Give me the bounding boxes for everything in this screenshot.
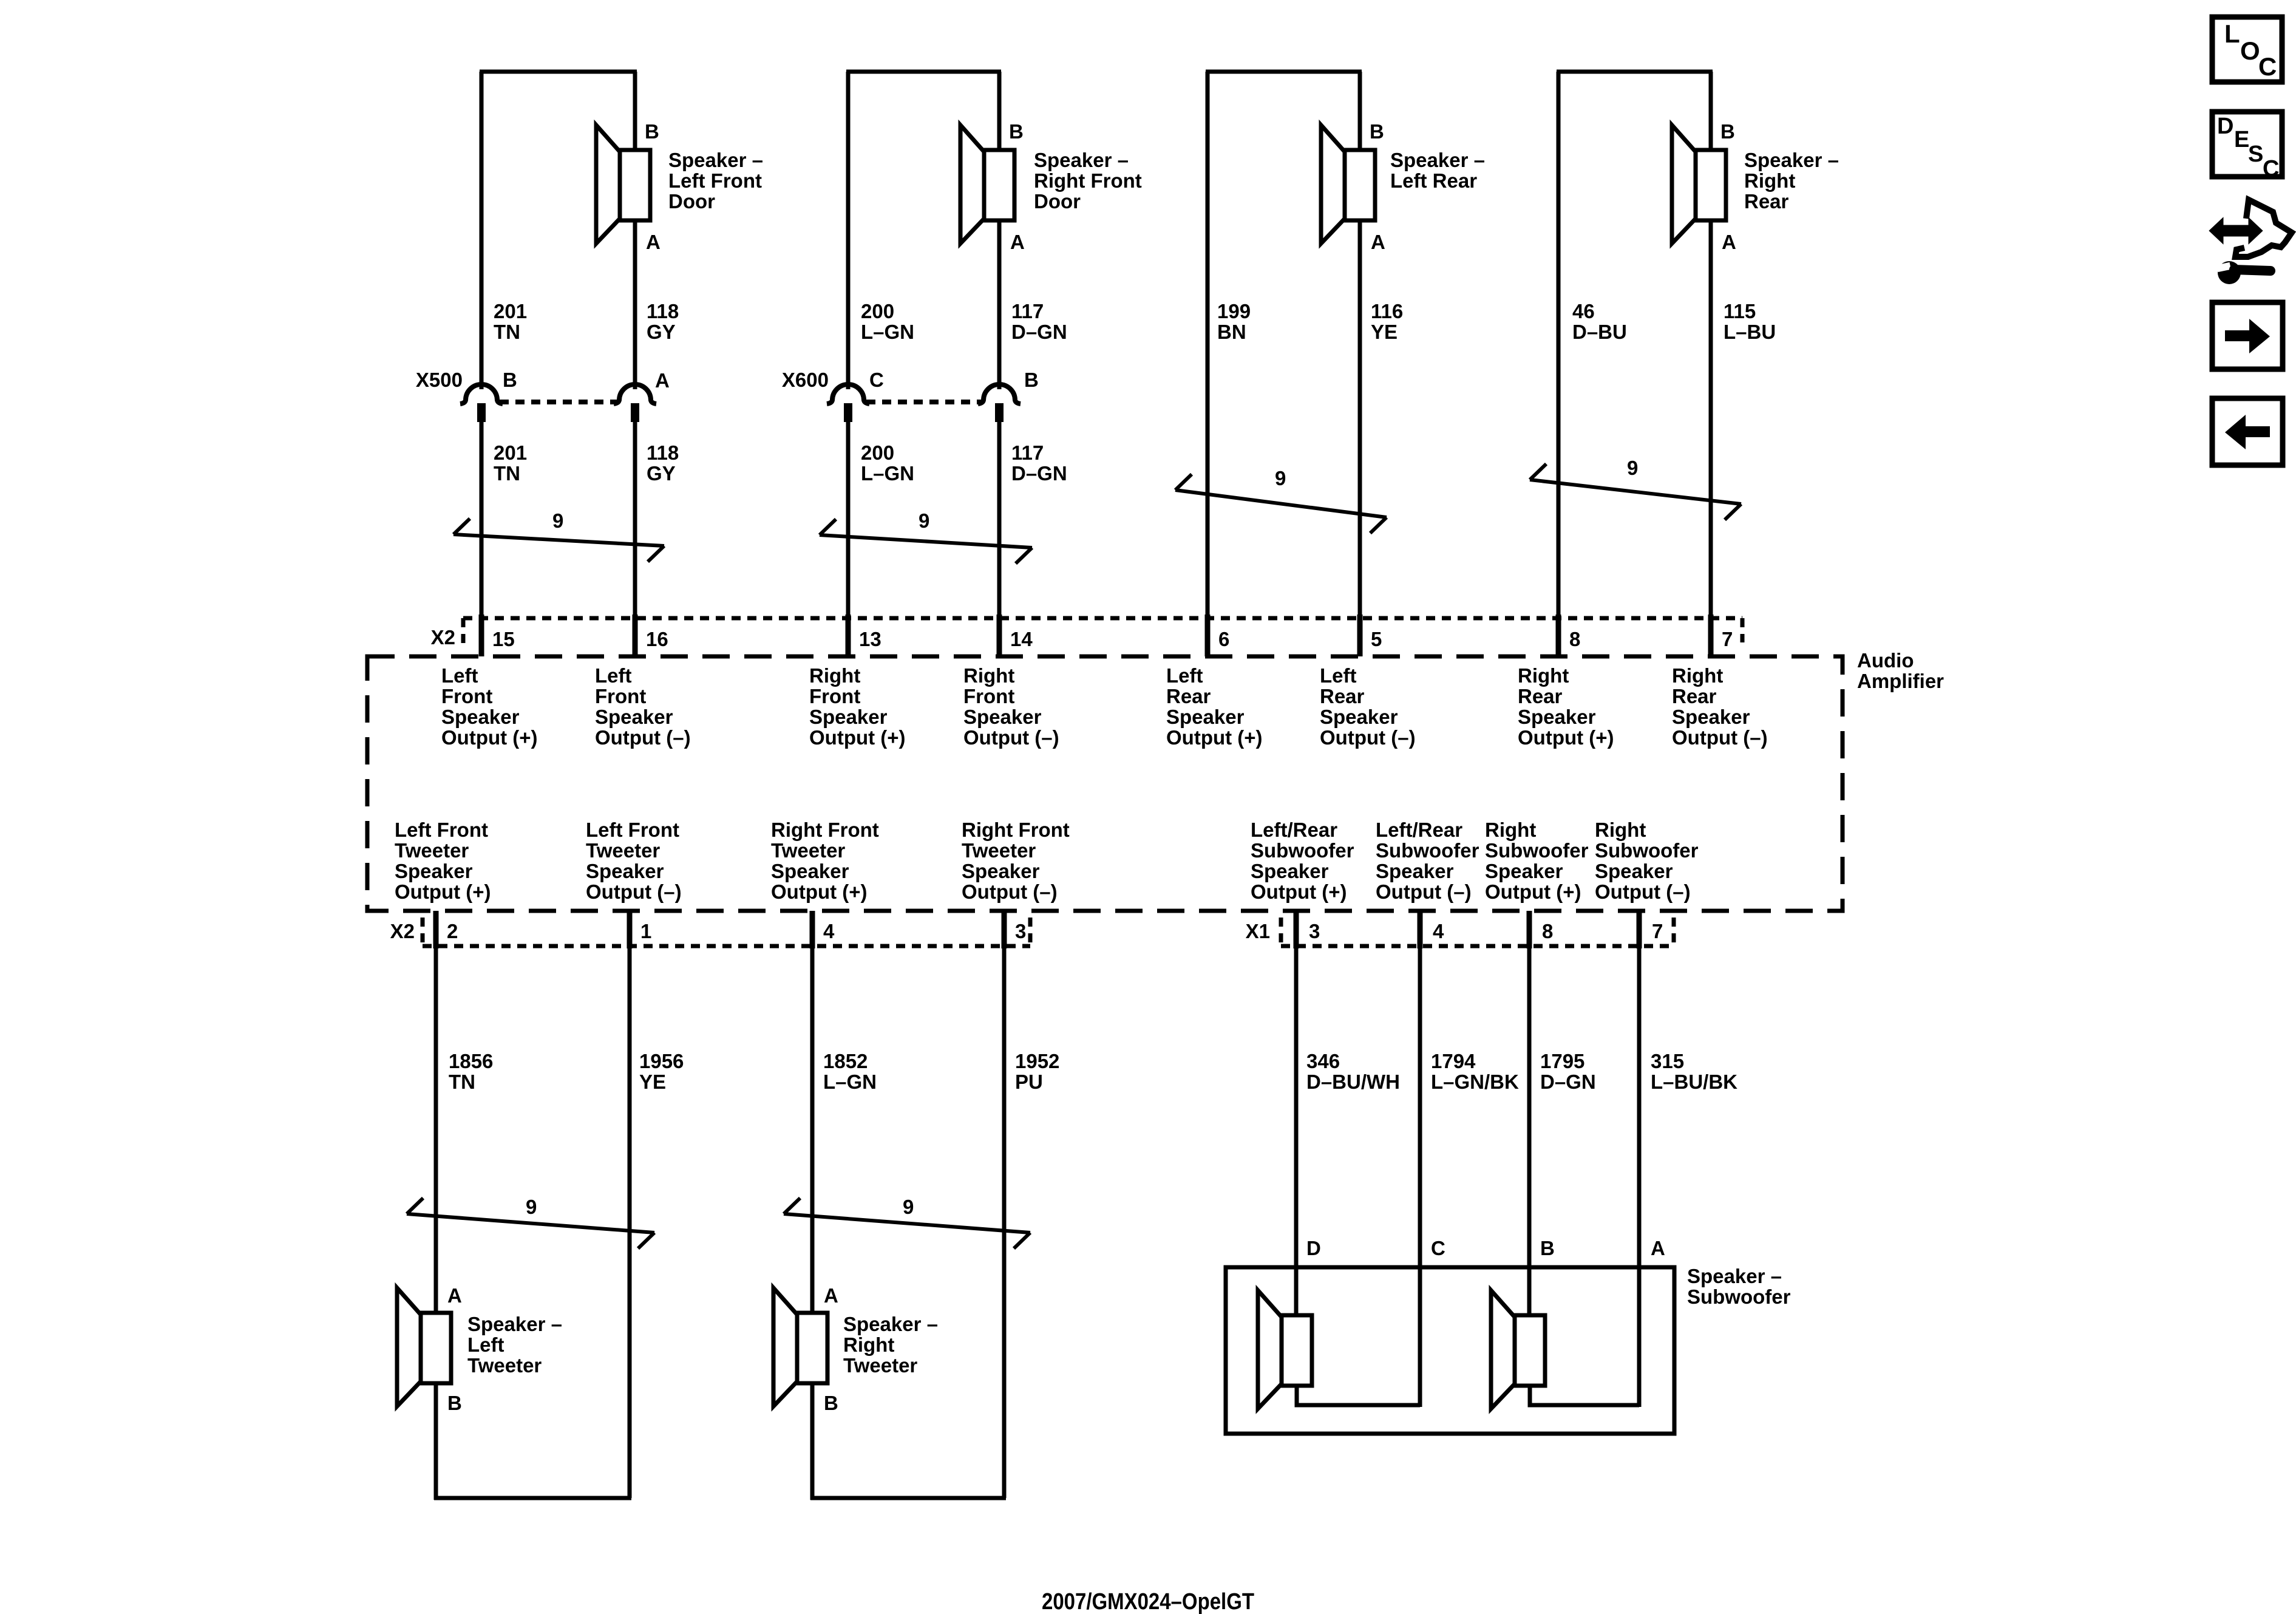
svg-text:Speaker: Speaker bbox=[1672, 706, 1750, 728]
svg-text:A: A bbox=[646, 231, 661, 253]
svg-text:YE: YE bbox=[639, 1071, 666, 1093]
svg-text:4: 4 bbox=[823, 920, 835, 942]
svg-text:Speaker –: Speaker – bbox=[1034, 149, 1129, 171]
svg-text:9: 9 bbox=[1627, 457, 1638, 479]
svg-text:1852: 1852 bbox=[823, 1050, 868, 1072]
svg-text:Rear: Rear bbox=[1320, 685, 1365, 707]
svg-text:16: 16 bbox=[646, 628, 668, 650]
svg-text:Right Front: Right Front bbox=[771, 819, 879, 841]
svg-text:Right: Right bbox=[963, 664, 1014, 687]
svg-text:Left Rear: Left Rear bbox=[1390, 169, 1477, 192]
svg-text:Output (–): Output (–) bbox=[1376, 880, 1472, 903]
svg-text:3: 3 bbox=[1015, 920, 1026, 942]
svg-text:BN: BN bbox=[1217, 321, 1246, 343]
svg-text:Right: Right bbox=[1744, 169, 1795, 192]
svg-text:1856: 1856 bbox=[449, 1050, 493, 1072]
svg-text:L–GN/BK: L–GN/BK bbox=[1431, 1071, 1519, 1093]
svg-text:Speaker: Speaker bbox=[586, 860, 664, 882]
svg-text:YE: YE bbox=[1371, 321, 1398, 343]
svg-text:Output (–): Output (–) bbox=[1672, 726, 1768, 749]
svg-text:Output (+): Output (+) bbox=[1166, 726, 1263, 749]
svg-text:Output (+): Output (+) bbox=[441, 726, 538, 749]
svg-text:Left: Left bbox=[467, 1333, 504, 1356]
svg-text:Right: Right bbox=[809, 664, 860, 687]
svg-text:Speaker –: Speaker – bbox=[467, 1313, 562, 1335]
svg-text:Front: Front bbox=[595, 685, 646, 707]
svg-text:Output (+): Output (+) bbox=[1485, 880, 1581, 903]
svg-text:1: 1 bbox=[640, 920, 651, 942]
svg-text:Output (+): Output (+) bbox=[1251, 880, 1347, 903]
svg-text:Right: Right bbox=[1518, 664, 1569, 687]
svg-text:Rear: Rear bbox=[1166, 685, 1211, 707]
svg-text:Left: Left bbox=[1320, 664, 1357, 687]
svg-text:L–GN: L–GN bbox=[861, 462, 914, 485]
svg-text:9: 9 bbox=[919, 509, 929, 532]
svg-text:A: A bbox=[824, 1284, 838, 1307]
svg-text:Left: Left bbox=[441, 664, 478, 687]
svg-text:9: 9 bbox=[552, 509, 563, 532]
svg-text:8: 8 bbox=[1569, 628, 1580, 650]
svg-text:Left/Rear: Left/Rear bbox=[1251, 819, 1337, 841]
svg-text:200: 200 bbox=[861, 441, 894, 464]
svg-text:Subwoofer: Subwoofer bbox=[1687, 1285, 1791, 1308]
svg-text:B: B bbox=[1540, 1237, 1555, 1259]
svg-text:D–GN: D–GN bbox=[1540, 1071, 1596, 1093]
svg-text:Left Front: Left Front bbox=[395, 819, 488, 841]
svg-text:Rear: Rear bbox=[1672, 685, 1717, 707]
svg-text:Right: Right bbox=[843, 1333, 894, 1356]
svg-text:Right Front: Right Front bbox=[1034, 169, 1142, 192]
svg-text:Speaker: Speaker bbox=[1485, 860, 1563, 882]
svg-text:116: 116 bbox=[1371, 300, 1403, 322]
svg-text:Left Front: Left Front bbox=[668, 169, 762, 192]
svg-text:1952: 1952 bbox=[1015, 1050, 1059, 1072]
svg-text:Tweeter: Tweeter bbox=[771, 839, 845, 862]
svg-text:15: 15 bbox=[492, 628, 515, 650]
svg-text:Left/Rear: Left/Rear bbox=[1376, 819, 1462, 841]
svg-text:Output (–): Output (–) bbox=[595, 726, 691, 749]
svg-text:46: 46 bbox=[1572, 300, 1595, 322]
svg-text:D–GN: D–GN bbox=[1011, 462, 1067, 485]
svg-text:Left Front: Left Front bbox=[586, 819, 679, 841]
svg-text:Output (+): Output (+) bbox=[395, 880, 491, 903]
svg-text:C: C bbox=[2263, 156, 2279, 182]
svg-text:TN: TN bbox=[449, 1071, 475, 1093]
svg-text:Rear: Rear bbox=[1744, 190, 1789, 213]
svg-text:1956: 1956 bbox=[639, 1050, 684, 1072]
svg-text:13: 13 bbox=[859, 628, 881, 650]
svg-text:Door: Door bbox=[1034, 190, 1081, 213]
svg-text:A: A bbox=[1010, 231, 1025, 253]
svg-text:201: 201 bbox=[494, 441, 527, 464]
svg-text:Right Front: Right Front bbox=[962, 819, 1070, 841]
svg-text:D: D bbox=[2217, 114, 2233, 139]
svg-text:Amplifier: Amplifier bbox=[1857, 670, 1944, 692]
svg-text:1795: 1795 bbox=[1540, 1050, 1584, 1072]
svg-text:14: 14 bbox=[1010, 628, 1033, 650]
svg-text:Output (+): Output (+) bbox=[1518, 726, 1614, 749]
svg-text:9: 9 bbox=[903, 1196, 914, 1218]
svg-text:Output (–): Output (–) bbox=[963, 726, 1059, 749]
svg-text:Speaker: Speaker bbox=[962, 860, 1040, 882]
svg-text:4: 4 bbox=[1433, 920, 1444, 942]
svg-text:E: E bbox=[2234, 127, 2249, 152]
svg-text:C: C bbox=[2258, 52, 2277, 81]
svg-text:L–GN: L–GN bbox=[861, 321, 914, 343]
svg-text:C: C bbox=[1431, 1237, 1445, 1259]
svg-text:Speaker –: Speaker – bbox=[843, 1313, 938, 1335]
svg-text:8: 8 bbox=[1542, 920, 1553, 942]
svg-text:Speaker –: Speaker – bbox=[1744, 149, 1839, 171]
svg-text:O: O bbox=[2240, 36, 2260, 65]
svg-text:9: 9 bbox=[1275, 467, 1286, 489]
svg-text:Right: Right bbox=[1595, 819, 1646, 841]
svg-text:Speaker –: Speaker – bbox=[668, 149, 763, 171]
svg-text:B: B bbox=[645, 120, 659, 143]
svg-text:B: B bbox=[824, 1392, 838, 1414]
svg-text:Tweeter: Tweeter bbox=[962, 839, 1036, 862]
svg-text:Speaker: Speaker bbox=[1518, 706, 1596, 728]
svg-text:B: B bbox=[1720, 120, 1735, 143]
svg-text:D: D bbox=[1306, 1237, 1321, 1259]
svg-text:L–BU/BK: L–BU/BK bbox=[1651, 1071, 1737, 1093]
svg-text:Tweeter: Tweeter bbox=[467, 1354, 542, 1377]
svg-text:L–GN: L–GN bbox=[823, 1071, 877, 1093]
svg-text:Speaker: Speaker bbox=[1376, 860, 1454, 882]
svg-text:Speaker: Speaker bbox=[1595, 860, 1673, 882]
svg-text:Subwoofer: Subwoofer bbox=[1376, 839, 1479, 862]
svg-text:201: 201 bbox=[494, 300, 527, 322]
svg-text:118: 118 bbox=[647, 300, 679, 322]
svg-text:2: 2 bbox=[447, 920, 458, 942]
svg-text:199: 199 bbox=[1217, 300, 1251, 322]
svg-text:Front: Front bbox=[963, 685, 1014, 707]
svg-text:L–BU: L–BU bbox=[1724, 321, 1776, 343]
svg-text:Speaker: Speaker bbox=[963, 706, 1042, 728]
svg-text:A: A bbox=[1371, 231, 1385, 253]
svg-text:A: A bbox=[1651, 1237, 1665, 1259]
svg-text:B: B bbox=[503, 369, 517, 391]
svg-text:TN: TN bbox=[494, 462, 520, 485]
svg-text:Speaker: Speaker bbox=[771, 860, 849, 882]
svg-text:Speaker: Speaker bbox=[1166, 706, 1245, 728]
svg-text:X600: X600 bbox=[782, 369, 829, 391]
svg-text:Speaker –: Speaker – bbox=[1390, 149, 1485, 171]
svg-text:Output (+): Output (+) bbox=[771, 880, 868, 903]
svg-text:Speaker: Speaker bbox=[595, 706, 673, 728]
svg-text:X2: X2 bbox=[390, 920, 415, 942]
svg-text:L: L bbox=[2224, 19, 2240, 48]
svg-text:Speaker: Speaker bbox=[809, 706, 888, 728]
svg-text:Tweeter: Tweeter bbox=[586, 839, 660, 862]
svg-text:Tweeter: Tweeter bbox=[395, 839, 469, 862]
svg-text:A: A bbox=[447, 1284, 462, 1307]
svg-text:117: 117 bbox=[1011, 300, 1044, 322]
svg-text:Rear: Rear bbox=[1518, 685, 1563, 707]
svg-text:Speaker: Speaker bbox=[395, 860, 473, 882]
svg-text:Output (–): Output (–) bbox=[1320, 726, 1416, 749]
svg-text:6: 6 bbox=[1218, 628, 1229, 650]
svg-text:B: B bbox=[1009, 120, 1024, 143]
svg-text:GY: GY bbox=[647, 321, 676, 343]
svg-text:S: S bbox=[2248, 141, 2263, 167]
svg-text:A: A bbox=[655, 369, 670, 392]
svg-text:Speaker: Speaker bbox=[1251, 860, 1329, 882]
svg-text:D–BU: D–BU bbox=[1572, 321, 1627, 343]
svg-text:118: 118 bbox=[647, 441, 679, 464]
svg-text:C: C bbox=[869, 369, 884, 391]
svg-text:Right: Right bbox=[1485, 819, 1536, 841]
svg-text:346: 346 bbox=[1306, 1050, 1340, 1072]
svg-text:X1: X1 bbox=[1246, 920, 1270, 942]
svg-text:9: 9 bbox=[526, 1196, 537, 1218]
svg-text:A: A bbox=[1722, 231, 1736, 253]
svg-text:B: B bbox=[1370, 120, 1384, 143]
svg-text:GY: GY bbox=[647, 462, 676, 485]
svg-text:Subwoofer: Subwoofer bbox=[1251, 839, 1354, 862]
svg-text:7: 7 bbox=[1652, 920, 1663, 942]
svg-text:Speaker: Speaker bbox=[1320, 706, 1398, 728]
svg-text:Output (–): Output (–) bbox=[962, 880, 1058, 903]
svg-text:Output (–): Output (–) bbox=[1595, 880, 1691, 903]
svg-text:Front: Front bbox=[809, 685, 860, 707]
svg-text:Subwoofer: Subwoofer bbox=[1595, 839, 1699, 862]
svg-text:5: 5 bbox=[1371, 628, 1382, 650]
svg-text:B: B bbox=[1024, 369, 1039, 391]
svg-text:2007/GMX024–OpelGT: 2007/GMX024–OpelGT bbox=[1042, 1589, 1254, 1614]
svg-text:Tweeter: Tweeter bbox=[843, 1354, 917, 1377]
svg-text:D–GN: D–GN bbox=[1011, 321, 1067, 343]
svg-text:X500: X500 bbox=[416, 369, 463, 391]
svg-text:200: 200 bbox=[861, 300, 894, 322]
svg-text:3: 3 bbox=[1309, 920, 1320, 942]
svg-text:B: B bbox=[447, 1392, 462, 1414]
svg-text:Speaker: Speaker bbox=[441, 706, 520, 728]
svg-text:Audio: Audio bbox=[1857, 649, 1914, 672]
svg-text:Front: Front bbox=[441, 685, 492, 707]
svg-text:Right: Right bbox=[1672, 664, 1723, 687]
svg-text:D–BU/WH: D–BU/WH bbox=[1306, 1071, 1400, 1093]
svg-text:115: 115 bbox=[1724, 300, 1756, 322]
svg-text:TN: TN bbox=[494, 321, 520, 343]
svg-text:Output (–): Output (–) bbox=[586, 880, 682, 903]
svg-text:Left: Left bbox=[595, 664, 632, 687]
svg-text:Speaker –: Speaker – bbox=[1687, 1265, 1782, 1287]
svg-text:Door: Door bbox=[668, 190, 715, 213]
svg-text:315: 315 bbox=[1651, 1050, 1684, 1072]
svg-text:7: 7 bbox=[1722, 628, 1733, 650]
svg-text:Left: Left bbox=[1166, 664, 1203, 687]
svg-text:PU: PU bbox=[1015, 1071, 1043, 1093]
svg-text:1794: 1794 bbox=[1431, 1050, 1476, 1072]
svg-text:Subwoofer: Subwoofer bbox=[1485, 839, 1589, 862]
svg-text:X2: X2 bbox=[431, 626, 455, 649]
svg-text:117: 117 bbox=[1011, 441, 1044, 464]
svg-text:Output (+): Output (+) bbox=[809, 726, 906, 749]
